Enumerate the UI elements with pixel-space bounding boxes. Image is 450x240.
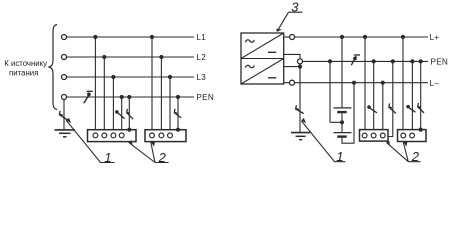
svg-text:2: 2 <box>411 149 420 164</box>
svg-text:К источнику: К источнику <box>4 59 47 68</box>
svg-text:L3: L3 <box>196 73 206 82</box>
svg-text:2: 2 <box>158 150 167 165</box>
svg-text:PEN: PEN <box>431 57 449 66</box>
svg-text:питания: питания <box>9 68 38 77</box>
svg-text:PEN: PEN <box>196 93 214 102</box>
svg-text:1: 1 <box>336 149 343 164</box>
svg-text:L2: L2 <box>196 53 206 62</box>
svg-text:L+: L+ <box>430 33 440 42</box>
svg-text:L1: L1 <box>196 33 206 42</box>
svg-text:L–: L– <box>430 79 440 88</box>
svg-text:1: 1 <box>104 150 111 165</box>
svg-text:3: 3 <box>291 0 299 15</box>
